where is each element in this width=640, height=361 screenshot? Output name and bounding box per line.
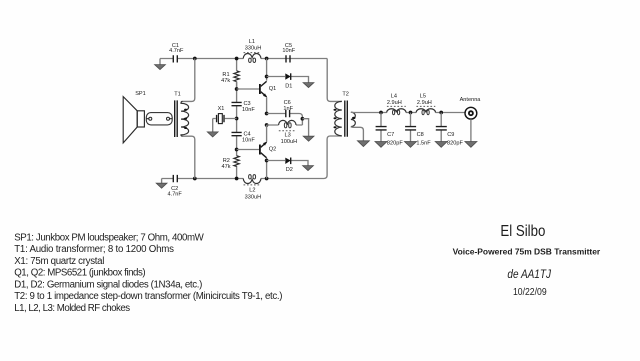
capacitor C8	[410, 113, 412, 142]
svg-text:47k: 47k	[221, 164, 230, 170]
svg-text:L4: L4	[391, 93, 397, 99]
crystal X1	[213, 119, 237, 132]
capacitor C4	[232, 132, 242, 135]
inductor L2	[243, 179, 261, 184]
capacitor C2	[173, 175, 177, 182]
ground G9	[405, 142, 417, 148]
node R1 top	[235, 57, 239, 61]
svg-text:100uH: 100uH	[281, 139, 297, 145]
transistor Q2	[266, 125, 268, 142]
transformer T2 primary winding	[335, 101, 342, 135]
svg-text:El Silbo: El Silbo	[500, 223, 545, 240]
inductor L3	[279, 120, 296, 125]
node X1	[235, 117, 239, 121]
wire T1 secondary bottom lead	[183, 136, 195, 178]
svg-text:L5: L5	[420, 93, 426, 99]
svg-text:L3: L3	[284, 132, 290, 138]
ground G2 bottom-left	[161, 179, 163, 184]
ground G6	[303, 166, 314, 171]
capacitor C6	[267, 114, 303, 126]
svg-text:820pF: 820pF	[387, 141, 403, 147]
svg-text:Q1: Q1	[269, 86, 276, 92]
wire top rail	[160, 58, 327, 60]
capacitor C9	[440, 113, 442, 142]
svg-text:T2: 9 to 1 impedance step-down: T2: 9 to 1 impedance step-down transform…	[14, 291, 282, 302]
wire Q1 base lead	[237, 88, 260, 90]
node tank bottom	[265, 123, 269, 127]
wire T2 secondary top lead	[351, 111, 381, 113]
wire L3 leads	[267, 124, 303, 126]
transformer T1 secondary winding	[181, 101, 189, 136]
svg-text:C7: C7	[387, 132, 394, 138]
svg-text:10/22/09: 10/22/09	[513, 287, 547, 298]
svg-text:T2: T2	[342, 92, 349, 98]
svg-text:T1: Audio transformer; 8 to 12: T1: Audio transformer; 8 to 1200 Ohms	[14, 244, 174, 255]
resistor R2	[234, 156, 239, 167]
svg-text:C8: C8	[417, 132, 424, 138]
svg-text:D1: D1	[285, 84, 292, 90]
capacitor C7	[380, 113, 382, 142]
svg-text:4.7nF: 4.7nF	[168, 192, 183, 198]
svg-text:47k: 47k	[221, 78, 230, 84]
inductor L1	[243, 54, 261, 59]
wire T1 secondary top lead	[183, 59, 195, 102]
wire Q1 emitter to tank	[266, 97, 268, 113]
svg-text:4.7nF: 4.7nF	[169, 48, 184, 54]
svg-text:Voice-Powered 75m DSB Transmit: Voice-Powered 75m DSB Transmitter	[453, 246, 601, 256]
speaker SP1	[123, 97, 137, 143]
svg-text:Antenna: Antenna	[460, 97, 482, 103]
svg-text:D2: D2	[286, 167, 293, 173]
node L1 right / Q1 collector top	[265, 57, 269, 61]
ground G10	[435, 142, 447, 148]
wire tank to ground	[302, 119, 308, 137]
capacitor C1	[173, 55, 177, 62]
diode D1	[267, 77, 309, 83]
svg-text:Q2: Q2	[269, 146, 276, 152]
node D2	[265, 159, 269, 163]
svg-text:de AA1TJ: de AA1TJ	[507, 268, 551, 281]
svg-text:L1, L2, L3: Molded RF chokes: L1, L2, L3: Molded RF chokes	[14, 303, 130, 314]
node L2 right / Q2 collector bottom	[265, 177, 269, 181]
svg-text:1.5nF: 1.5nF	[416, 141, 431, 147]
svg-text:D1, D2: Germanium signal diode: D1, D2: Germanium signal diodes (1N34a, …	[14, 279, 202, 290]
svg-text:10nF: 10nF	[242, 138, 255, 144]
svg-text:L1: L1	[249, 39, 255, 45]
svg-text:SP1: SP1	[135, 91, 146, 97]
node Q1 base	[235, 87, 239, 91]
antenna connector	[465, 107, 477, 119]
svg-text:330uH: 330uH	[245, 46, 261, 52]
svg-text:2.9uH: 2.9uH	[387, 100, 402, 106]
svg-text:820pF: 820pF	[447, 141, 463, 147]
svg-text:SP1: Junkbox PM loudspeaker; 7: SP1: Junkbox PM loudspeaker; 7 Ohm, 400m…	[14, 232, 204, 243]
node D1	[265, 75, 269, 79]
ground G1 top-left	[159, 59, 161, 65]
node L4 left	[379, 111, 383, 115]
transformer T2 core	[345, 101, 348, 137]
svg-text:10nF: 10nF	[242, 107, 255, 113]
diode D2	[267, 161, 308, 166]
node L5 right	[439, 111, 443, 115]
transformer T1 core	[175, 100, 178, 137]
wire top rail right drop to T2	[327, 59, 342, 102]
svg-text:X1: 75m quartz crystal: X1: 75m quartz crystal	[14, 256, 104, 267]
wire bottom rail	[162, 136, 342, 179]
wire cable stubs	[146, 118, 172, 120]
wire T2 secondary bottom lead to ground	[351, 127, 364, 141]
node T1 bottom junction	[193, 177, 197, 181]
wire output line	[381, 112, 465, 114]
speaker cable jacket	[146, 113, 172, 125]
parts list text	[14, 232, 282, 314]
capacitor C5	[286, 55, 290, 62]
cable terminal right	[167, 117, 170, 120]
inductor L5	[416, 109, 435, 113]
transformer T2 secondary winding	[351, 112, 355, 127]
inductor L4	[387, 109, 406, 113]
cable terminal left	[149, 117, 152, 120]
ground G3 crystal	[207, 132, 218, 137]
ground G8	[375, 142, 387, 148]
svg-text:1nF: 1nF	[283, 106, 293, 112]
svg-text:2.9uH: 2.9uH	[417, 100, 432, 106]
svg-text:L2: L2	[249, 188, 255, 194]
node tank right	[301, 117, 305, 121]
svg-text:330uH: 330uH	[245, 194, 261, 200]
node R2 bottom	[235, 177, 239, 181]
resistor R1	[236, 59, 238, 90]
svg-text:T1: T1	[174, 91, 181, 97]
node L4/L5	[409, 111, 413, 115]
ground G4	[303, 83, 314, 88]
capacitor C3	[232, 102, 242, 105]
wire center column	[236, 82, 238, 179]
node Q2 base	[235, 148, 239, 152]
svg-text:C9: C9	[447, 132, 454, 138]
ground G5	[303, 136, 314, 141]
svg-text:10nF: 10nF	[282, 48, 295, 54]
node T1 top junction	[193, 57, 197, 61]
svg-text:X1: X1	[218, 106, 225, 112]
wire Q2 base lead	[237, 149, 260, 151]
ground G7	[357, 141, 369, 147]
svg-text:Q1, Q2: MPS6521 (junkbox finds: Q1, Q2: MPS6521 (junkbox finds)	[14, 268, 145, 279]
transistor Q1	[266, 59, 268, 81]
node tank top	[265, 112, 269, 116]
wire antenna to ground	[470, 119, 472, 141]
wire Q2 collector lead	[266, 158, 268, 179]
ground G11	[465, 142, 477, 148]
